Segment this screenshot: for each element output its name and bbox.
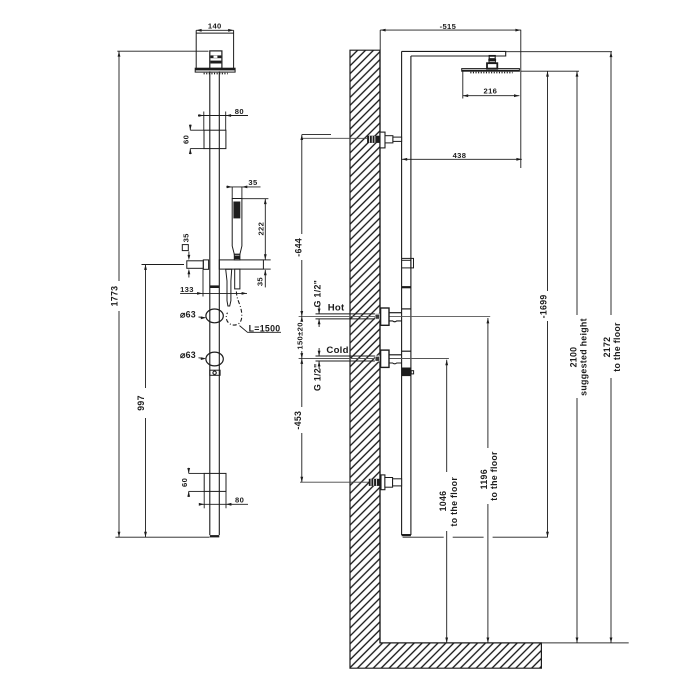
svg-text:60: 60 <box>182 135 191 144</box>
svg-text:⌀63: ⌀63 <box>180 350 196 360</box>
svg-text:to the floor: to the floor <box>612 322 622 372</box>
svg-text:-515: -515 <box>440 22 457 31</box>
svg-text:1046: 1046 <box>438 491 448 512</box>
svg-text:140: 140 <box>208 22 222 31</box>
svg-text:L=1500: L=1500 <box>249 324 281 334</box>
svg-text:80: 80 <box>235 496 244 505</box>
svg-text:1196: 1196 <box>479 469 489 489</box>
svg-text:35: 35 <box>181 233 190 243</box>
svg-text:Hot: Hot <box>328 303 345 314</box>
svg-text:222: 222 <box>256 222 265 236</box>
svg-text:150±20: 150±20 <box>296 322 305 349</box>
svg-text:997: 997 <box>136 395 146 411</box>
svg-text:to the floor: to the floor <box>489 451 499 501</box>
svg-text:to the floor: to the floor <box>449 477 459 527</box>
svg-text:2172: 2172 <box>602 337 612 358</box>
svg-text:G 1/2": G 1/2" <box>312 280 322 308</box>
svg-text:-453: -453 <box>293 411 303 430</box>
svg-text:Cold: Cold <box>326 345 348 356</box>
svg-text:suggested height: suggested height <box>579 318 589 396</box>
svg-text:G 1/2": G 1/2" <box>312 364 322 392</box>
svg-text:216: 216 <box>484 87 498 96</box>
svg-text:-1699: -1699 <box>539 294 549 318</box>
svg-text:80: 80 <box>235 107 244 116</box>
svg-text:1773: 1773 <box>110 286 120 307</box>
svg-text:-644: -644 <box>294 238 304 257</box>
svg-text:133: 133 <box>180 285 194 294</box>
svg-text:60: 60 <box>180 478 189 487</box>
svg-text:2100: 2100 <box>569 347 579 368</box>
svg-text:35: 35 <box>248 178 258 187</box>
svg-text:438: 438 <box>453 151 467 160</box>
svg-text:⌀63: ⌀63 <box>180 309 196 319</box>
svg-text:35: 35 <box>256 277 265 287</box>
